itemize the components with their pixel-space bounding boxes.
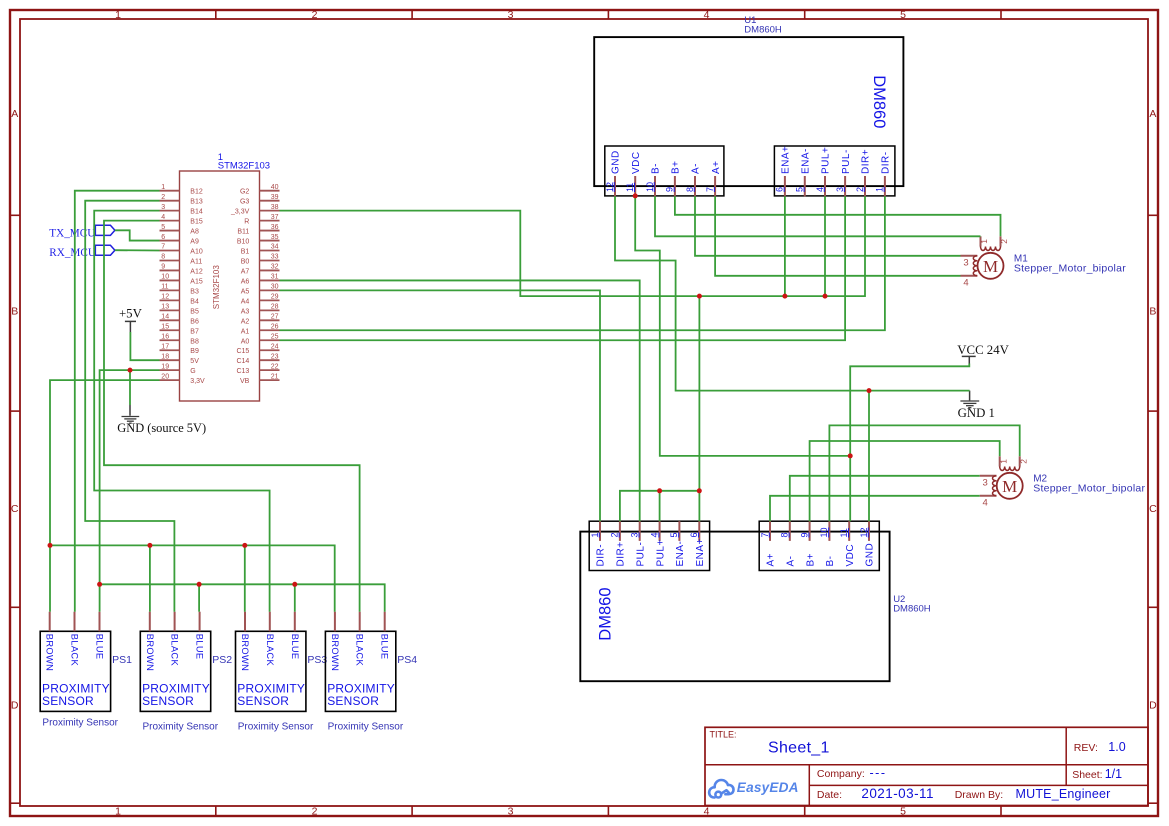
- svg-text:9: 9: [665, 187, 675, 192]
- svg-text:PS2: PS2: [212, 654, 232, 666]
- U2 pin 1 (DIR-): [599, 521, 601, 541]
- svg-text:PUL-: PUL-: [635, 542, 646, 567]
- svg-text:BROWN: BROWN: [145, 634, 155, 671]
- svg-text:1: 1: [979, 239, 989, 244]
- svg-text:C15: C15: [236, 348, 249, 355]
- svg-text:C: C: [1149, 503, 1157, 515]
- svg-text:Stepper_Motor_bipolar: Stepper_Motor_bipolar: [1014, 262, 1126, 274]
- svg-text:R: R: [244, 219, 249, 226]
- PS1 pin BLUE: [99, 612, 101, 632]
- PS4 pin BROWN: [334, 612, 336, 632]
- svg-text:1/1: 1/1: [1105, 767, 1122, 781]
- STM32 pin 15 (B7): [160, 329, 180, 331]
- svg-text:B1: B1: [241, 249, 250, 256]
- svg-text:8: 8: [161, 254, 165, 261]
- wire STM32.19-G to blue bus: [100, 370, 160, 584]
- svg-text:Proximity Sensor: Proximity Sensor: [42, 717, 118, 728]
- wire blue bus to PS3.BLUE: [294, 584, 296, 611]
- svg-text:B13: B13: [190, 199, 203, 206]
- svg-text:2: 2: [161, 194, 165, 201]
- STM32 pin 17 (B9): [160, 349, 180, 351]
- svg-text:30: 30: [271, 284, 279, 291]
- STM32 pin 38 (_3,3V): [260, 210, 280, 212]
- svg-text:DIR-: DIR-: [596, 544, 607, 567]
- svg-text:ENA-: ENA-: [801, 148, 812, 174]
- U2 pin 6 (ENA+): [698, 521, 700, 541]
- wire U1.A+ to M1.4: [715, 196, 960, 275]
- svg-text:ENA+: ENA+: [695, 538, 706, 566]
- svg-text:B0: B0: [241, 258, 250, 265]
- svg-text:10: 10: [819, 527, 829, 537]
- U1 pin 3 (PUL-): [844, 176, 846, 196]
- svg-text:4: 4: [815, 187, 825, 192]
- svg-text:5: 5: [900, 9, 906, 21]
- STM32 pin 23 (C14): [260, 359, 280, 361]
- svg-text:7: 7: [760, 532, 770, 537]
- svg-text:2: 2: [312, 806, 318, 818]
- svg-text:B14: B14: [190, 209, 203, 216]
- svg-text:32: 32: [271, 264, 279, 271]
- svg-text:17: 17: [161, 343, 169, 350]
- svg-text:RX_MCU: RX_MCU: [49, 247, 96, 259]
- svg-text:Proximity Sensor: Proximity Sensor: [238, 721, 314, 732]
- M1 left coil: [961, 255, 978, 257]
- svg-text:39: 39: [271, 194, 279, 201]
- wire brown bus to PS1.BROWN: [49, 545, 51, 611]
- U2 pin box right: [759, 521, 879, 570]
- wire STM32.2-B13 to PS2.BLACK: [85, 201, 174, 612]
- svg-text:Sheet_1: Sheet_1: [768, 740, 830, 757]
- svg-text:33: 33: [271, 254, 279, 261]
- svg-text:2: 2: [855, 187, 865, 192]
- wire 3.3V net down to U2.ENA+: [698, 296, 700, 521]
- U1 pin 1 (DIR-): [884, 176, 886, 196]
- svg-text:PS3: PS3: [307, 654, 327, 666]
- U1 pin 2 (DIR+): [864, 176, 866, 196]
- wire U1.B+ to M1.2: [675, 196, 1001, 236]
- proximity sensor PS1 body: [40, 631, 110, 711]
- STM32 pin 3 (B14): [160, 210, 180, 212]
- svg-text:BLUE: BLUE: [195, 634, 205, 660]
- wire U1.VDC to VCC net: [635, 196, 850, 456]
- svg-text:G: G: [190, 368, 195, 375]
- PS1 pin BROWN: [49, 612, 51, 632]
- svg-text:PUL+: PUL+: [655, 539, 666, 566]
- svg-text:1: 1: [875, 187, 885, 192]
- svg-text:34: 34: [271, 244, 279, 251]
- wire STM32.30-A5 to U2.DIR-: [280, 290, 601, 521]
- svg-text:A3: A3: [241, 308, 250, 315]
- svg-text:19: 19: [161, 363, 169, 370]
- STM32 pin 10 (A15): [160, 279, 180, 281]
- wire blue bus to PS2.BLUE: [198, 584, 200, 611]
- svg-text:REV:: REV:: [1074, 742, 1098, 754]
- U2 pin box left: [589, 521, 709, 570]
- svg-text:DM860H: DM860H: [744, 25, 782, 36]
- svg-text:8: 8: [685, 187, 695, 192]
- svg-text:BROWN: BROWN: [330, 634, 340, 671]
- svg-text:BLUE: BLUE: [95, 634, 105, 660]
- svg-text:PUL+: PUL+: [821, 147, 832, 174]
- svg-text:A2: A2: [241, 318, 250, 325]
- svg-text:29: 29: [271, 294, 279, 301]
- STM32 pin 40 (G2): [260, 190, 280, 192]
- M2 left coil: [980, 475, 997, 477]
- svg-text:B4: B4: [190, 298, 199, 305]
- IC STM32F103 (U?) body: [180, 171, 260, 401]
- svg-text:B+: B+: [671, 160, 682, 174]
- wire U2.PUL+ branch: [659, 491, 661, 521]
- svg-text:STM32F103: STM32F103: [212, 265, 221, 310]
- wire RX_MCU to STM32.7-A10: [115, 249, 160, 251]
- svg-text:BLUE: BLUE: [380, 634, 390, 660]
- svg-text:5V: 5V: [190, 358, 199, 365]
- U1 pin 7 (A+): [714, 176, 716, 196]
- svg-text:SENSOR: SENSOR: [237, 694, 289, 708]
- svg-text:ENA-: ENA-: [675, 541, 686, 567]
- STM32 pin 35 (B10): [260, 240, 280, 242]
- svg-text:24: 24: [271, 343, 279, 350]
- svg-text:D: D: [11, 700, 19, 712]
- svg-text:11: 11: [625, 183, 635, 192]
- wire blue bus horizontal: [100, 584, 385, 611]
- wire U1.ENA+ to 3.3V net: [784, 196, 786, 296]
- svg-text:4: 4: [649, 532, 659, 537]
- svg-text:1: 1: [161, 184, 165, 191]
- net flag RX_MCU: [94, 245, 115, 255]
- svg-text:MUTE_Engineer: MUTE_Engineer: [1016, 787, 1111, 801]
- PS2 pin BROWN: [149, 612, 151, 632]
- svg-text:---: ---: [870, 766, 887, 780]
- svg-text:A8: A8: [190, 229, 199, 236]
- wire U1.A- to M1.3: [695, 196, 961, 256]
- svg-text:4: 4: [704, 9, 710, 21]
- svg-text:12: 12: [605, 182, 615, 192]
- svg-text:16: 16: [161, 333, 169, 340]
- svg-text:B3: B3: [190, 288, 199, 295]
- svg-text:5: 5: [669, 532, 679, 537]
- junction: [97, 582, 102, 587]
- svg-text:A9: A9: [190, 239, 199, 246]
- svg-text:4: 4: [983, 498, 988, 509]
- junction: [147, 543, 152, 548]
- svg-text:3: 3: [508, 9, 514, 21]
- junction: [197, 582, 202, 587]
- U2 pin 11 (VDC): [848, 521, 850, 541]
- svg-text:A7: A7: [241, 268, 250, 275]
- svg-text:7: 7: [161, 244, 165, 251]
- svg-text:VCC 24V: VCC 24V: [957, 343, 1009, 357]
- wire U1.GND to GND 1: [615, 196, 970, 390]
- STM32 pin 7 (A10): [160, 250, 180, 252]
- U1 pin 4 (PUL+): [824, 176, 826, 196]
- svg-text:6: 6: [161, 234, 165, 241]
- svg-text:Stepper_Motor_bipolar: Stepper_Motor_bipolar: [1033, 482, 1145, 494]
- svg-text:TX_MCU: TX_MCU: [49, 227, 95, 239]
- svg-text:BROWN: BROWN: [45, 634, 55, 671]
- PS3 pin BLUE: [294, 612, 296, 632]
- junction: [242, 543, 247, 548]
- svg-text:GND 1: GND 1: [958, 406, 995, 420]
- STM32 pin 29 (A4): [260, 299, 280, 301]
- STM32 pin 37 (R): [260, 220, 280, 222]
- svg-text:10: 10: [161, 274, 169, 281]
- svg-text:A6: A6: [241, 278, 250, 285]
- svg-text:3: 3: [161, 204, 165, 211]
- junction: [823, 294, 828, 299]
- svg-text:BROWN: BROWN: [240, 634, 250, 671]
- svg-text:31: 31: [271, 274, 279, 281]
- svg-text:BLACK: BLACK: [355, 634, 365, 667]
- STM32 pin 2 (B13): [160, 200, 180, 202]
- wire +5V to STM32.18-5V: [130, 332, 159, 360]
- svg-text:BLACK: BLACK: [265, 634, 275, 667]
- STM32 pin 24 (C15): [260, 349, 280, 351]
- PS3 pin BLACK: [269, 612, 271, 632]
- GND (source 5V) ground symbol: [129, 405, 131, 416]
- svg-text:G2: G2: [240, 189, 249, 196]
- svg-text:11: 11: [161, 284, 168, 291]
- STM32 pin 26 (A1): [260, 329, 280, 331]
- U1 pin box left: [605, 146, 724, 196]
- svg-text:13: 13: [161, 304, 169, 311]
- junction: [697, 294, 702, 299]
- wire U1.PUL+ to 3.3V net: [824, 196, 826, 296]
- junction: [782, 294, 787, 299]
- wire GND net to U2.GND: [868, 391, 870, 522]
- svg-text:6: 6: [775, 187, 785, 192]
- svg-text:A10: A10: [190, 249, 203, 256]
- svg-text:A15: A15: [190, 278, 203, 285]
- U2 pin 4 (PUL+): [659, 521, 661, 541]
- svg-text:15: 15: [161, 323, 169, 330]
- STM32 pin 9 (A12): [160, 269, 180, 271]
- EasyEDA logo: [709, 780, 733, 798]
- svg-text:28: 28: [271, 304, 279, 311]
- svg-text:_3,3V: _3,3V: [230, 209, 250, 216]
- svg-text:4: 4: [963, 278, 968, 289]
- U1 pin 9 (B+): [674, 176, 676, 196]
- svg-text:23: 23: [271, 353, 279, 360]
- svg-text:B8: B8: [190, 338, 199, 345]
- svg-text:1.0: 1.0: [1108, 740, 1125, 754]
- wire U2.A- to M2.3: [790, 476, 980, 521]
- STM32 pin 12 (B4): [160, 299, 180, 301]
- wire brown bus to PS2.BROWN: [149, 545, 151, 611]
- svg-text:A12: A12: [190, 268, 203, 275]
- svg-text:DM860: DM860: [870, 75, 888, 128]
- wire VCC 24V to U2.VDC: [850, 364, 969, 522]
- svg-text:VDC: VDC: [631, 151, 642, 174]
- svg-text:PS1: PS1: [112, 654, 132, 666]
- svg-text:C: C: [11, 503, 19, 515]
- wire STM32.1-B12 to PS1.BLACK: [75, 191, 160, 612]
- svg-text:B-: B-: [825, 556, 836, 567]
- svg-text:M: M: [1002, 477, 1017, 496]
- svg-text:3,3V: 3,3V: [190, 378, 205, 385]
- svg-text:SENSOR: SENSOR: [142, 694, 194, 708]
- svg-text:B+: B+: [805, 553, 816, 567]
- wire STM32.25-A0 to U1.PUL-: [280, 196, 846, 340]
- svg-text:1: 1: [115, 806, 121, 818]
- svg-text:11: 11: [839, 528, 849, 537]
- svg-text:18: 18: [161, 353, 169, 360]
- U2 pin 2 (DIR+): [619, 521, 621, 541]
- svg-text:B: B: [1149, 306, 1156, 318]
- STM32 pin 22 (C13): [260, 369, 280, 371]
- svg-text:B15: B15: [190, 219, 203, 226]
- STM32 pin 32 (A7): [260, 269, 280, 271]
- wire brown bus horizontal: [50, 545, 335, 611]
- svg-text:VDC: VDC: [845, 544, 856, 567]
- svg-text:37: 37: [271, 214, 279, 221]
- proximity sensor PS4 body: [325, 631, 395, 711]
- U1 pin 11 (VDC): [634, 176, 636, 196]
- STM32 pin 21 (VB): [260, 379, 280, 381]
- STM32 pin 36 (B11): [260, 230, 280, 232]
- svg-text:ENA+: ENA+: [781, 146, 792, 174]
- svg-text:26: 26: [271, 323, 279, 330]
- net flag TX_MCU: [94, 225, 115, 235]
- STM32 pin 19 (G): [160, 369, 180, 371]
- svg-text:A0: A0: [241, 338, 250, 345]
- wire U2.A+ to M2.4: [770, 496, 980, 521]
- svg-text:BLACK: BLACK: [70, 634, 80, 667]
- svg-text:B12: B12: [190, 189, 203, 196]
- svg-text:5: 5: [161, 224, 165, 231]
- svg-text:B7: B7: [190, 328, 199, 335]
- svg-text:9: 9: [799, 532, 809, 537]
- svg-text:8: 8: [780, 532, 790, 537]
- PS4 pin BLACK: [359, 612, 361, 632]
- svg-text:2021-03-11: 2021-03-11: [861, 786, 934, 801]
- STM32 pin 31 (A6): [260, 279, 280, 281]
- svg-text:38: 38: [271, 204, 279, 211]
- GND 1 ground symbol: [969, 391, 971, 401]
- svg-text:3: 3: [983, 477, 988, 488]
- svg-text:21: 21: [271, 373, 279, 380]
- svg-text:B9: B9: [190, 348, 199, 355]
- U1 pin box right: [774, 146, 895, 196]
- STM32 pin 6 (A9): [160, 240, 180, 242]
- svg-text:3: 3: [835, 187, 845, 192]
- svg-text:2: 2: [610, 532, 620, 537]
- svg-text:7: 7: [705, 187, 715, 192]
- svg-text:STM32F103: STM32F103: [218, 160, 270, 171]
- svg-text:2: 2: [312, 9, 318, 21]
- STM32 pin 11 (B3): [160, 289, 180, 291]
- U1 pin 5 (ENA-): [804, 176, 806, 196]
- U1 pin 8 (A-): [694, 176, 696, 196]
- svg-text:B10: B10: [237, 239, 250, 246]
- svg-text:DIR+: DIR+: [616, 541, 627, 566]
- U2 pin 12 (GND): [868, 521, 870, 541]
- wire G net drop to GND symbol: [129, 370, 131, 405]
- svg-text:6: 6: [689, 532, 699, 537]
- svg-text:20: 20: [161, 373, 169, 380]
- U1 pin 10 (B-): [654, 176, 656, 196]
- svg-text:5: 5: [795, 187, 805, 192]
- svg-text:A4: A4: [241, 298, 250, 305]
- svg-text:B: B: [11, 306, 18, 318]
- wire TX_MCU to STM32.6-A9: [115, 230, 160, 240]
- wire U2.B+ to M2.1: [810, 441, 1000, 521]
- wire blue bus to PS1.BLUE: [99, 584, 101, 611]
- svg-text:B6: B6: [190, 318, 199, 325]
- svg-text:10: 10: [645, 182, 655, 192]
- STM32 pin 8 (A11): [160, 259, 180, 261]
- junction: [292, 582, 297, 587]
- svg-text:PUL-: PUL-: [841, 149, 852, 174]
- STM32 pin 18 (5V): [160, 359, 180, 361]
- svg-text:27: 27: [271, 314, 279, 321]
- svg-text:G3: G3: [240, 199, 249, 206]
- U1 pin 12 (GND): [614, 176, 616, 196]
- junction: [48, 543, 53, 548]
- svg-text:12: 12: [859, 527, 869, 537]
- svg-text:C13: C13: [236, 368, 249, 375]
- PS1 pin BLACK: [74, 612, 76, 632]
- svg-text:GND (source 5V): GND (source 5V): [117, 421, 206, 435]
- junction: [657, 488, 662, 493]
- STM32 pin 16 (B8): [160, 339, 180, 341]
- svg-text:3: 3: [630, 532, 640, 537]
- junction: [128, 368, 133, 373]
- wire STM32.38 3.3V to U1.DIR+: [280, 196, 866, 296]
- svg-text:A+: A+: [766, 553, 777, 567]
- svg-text:VB: VB: [240, 378, 250, 385]
- svg-text:2: 2: [1018, 459, 1028, 464]
- stepper motor M2 circle: [997, 473, 1023, 499]
- svg-text:A1: A1: [241, 328, 250, 335]
- svg-text:GND: GND: [865, 543, 876, 567]
- svg-text:Company:: Company:: [817, 768, 865, 780]
- junction: [697, 488, 702, 493]
- svg-text:A-: A-: [691, 163, 702, 174]
- svg-text:DM860: DM860: [597, 587, 615, 640]
- STM32 pin 27 (A2): [260, 319, 280, 321]
- svg-text:PS4: PS4: [397, 654, 417, 666]
- U2 pin 10 (B-): [828, 521, 830, 541]
- svg-text:Sheet:: Sheet:: [1072, 769, 1102, 781]
- proximity sensor PS3 body: [236, 631, 306, 711]
- PS4 pin BLUE: [384, 612, 386, 632]
- svg-text:A: A: [1149, 108, 1156, 120]
- wire U1.B- to M1.1: [655, 196, 981, 236]
- STM32 pin 20 (3,3V): [160, 379, 180, 381]
- title block frame: [705, 727, 1148, 805]
- wire STM32.4-B15 to PS4.BLACK: [104, 221, 360, 612]
- wire STM32.26-A1 to U1.DIR-: [280, 196, 885, 330]
- svg-text:DIR+: DIR+: [861, 149, 872, 174]
- svg-text:GND: GND: [611, 150, 622, 174]
- svg-text:1: 1: [115, 9, 121, 21]
- wire U2.DIR+ to 3.3V net: [620, 491, 699, 521]
- svg-text:C14: C14: [236, 358, 249, 365]
- svg-text:EasyEDA: EasyEDA: [737, 780, 799, 795]
- svg-text:Proximity Sensor: Proximity Sensor: [143, 721, 219, 732]
- wire STM32.31-A6 to U2.PUL-: [280, 280, 640, 521]
- driver U2 DM860H body: [580, 532, 889, 682]
- svg-text:B5: B5: [190, 308, 199, 315]
- STM32 pin 30 (A5): [260, 289, 280, 291]
- STM32 pin 25 (A0): [260, 339, 280, 341]
- STM32 pin 28 (A3): [260, 309, 280, 311]
- M1 top coil: [980, 236, 982, 246]
- STM32 pin 1 (B12): [160, 190, 180, 192]
- svg-text:Proximity Sensor: Proximity Sensor: [328, 721, 404, 732]
- svg-text:SENSOR: SENSOR: [327, 694, 379, 708]
